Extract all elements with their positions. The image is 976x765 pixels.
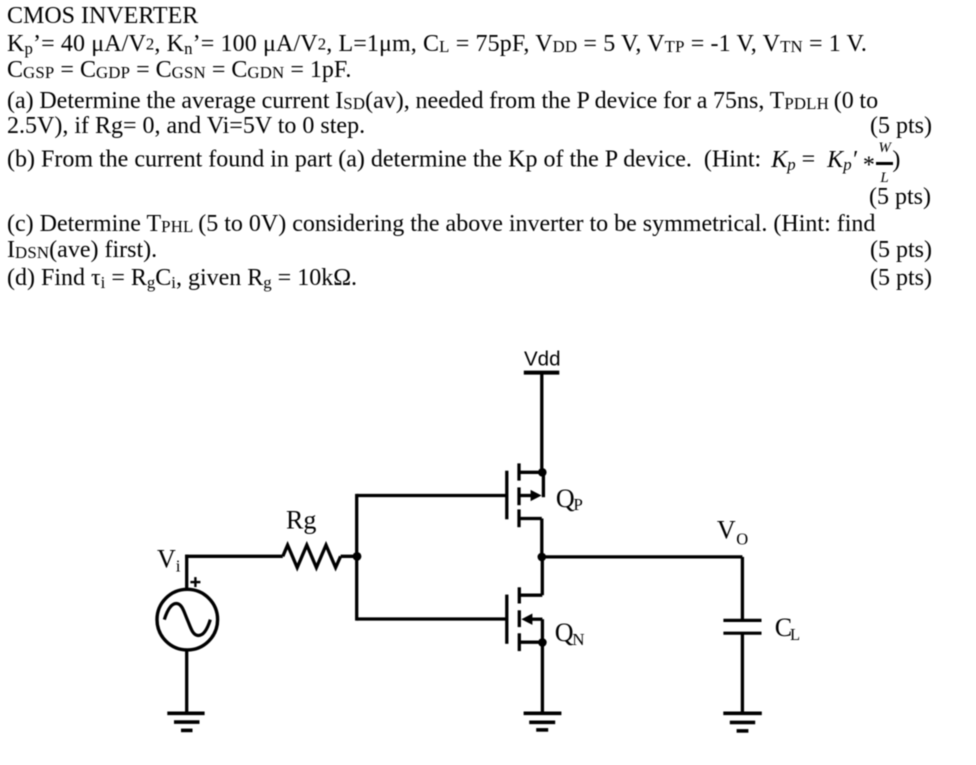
svg-text:i: i — [176, 556, 181, 575]
(5 pts) for part d — [870, 265, 932, 292]
part (d) line — [7, 265, 357, 297]
svg-text:Vdd: Vdd — [524, 348, 560, 371]
transistor Q_P body connection wire — [542, 472, 545, 497]
input node dot — [353, 552, 362, 561]
transistor Q_N body arrow — [521, 614, 532, 625]
part (a) line 2 — [7, 113, 365, 140]
ground right top line — [723, 711, 762, 715]
ground left top line — [167, 711, 204, 715]
svg-text:Rg: Rg — [286, 505, 316, 534]
ground center top line — [524, 711, 562, 715]
transistor Q_P gate bar — [505, 471, 508, 520]
ground right bottom line — [737, 729, 749, 733]
wire Vo to capacitor — [741, 557, 744, 621]
wire Q_P drain to output node — [540, 519, 543, 559]
transistor Q_P drain stub — [519, 517, 542, 520]
transistor Q_N channel segment top — [518, 587, 521, 603]
ground left middle line — [174, 720, 200, 724]
wire input node to Q_N gate — [357, 617, 507, 620]
transistor Q_N channel segment middle — [518, 610, 521, 627]
svg-text:P: P — [573, 495, 582, 514]
wire Vi riser — [185, 555, 188, 590]
part (c) line 1 — [7, 211, 875, 241]
wire resistor to input node — [341, 555, 357, 558]
svg-text:Q: Q — [556, 484, 575, 513]
wire input node vertical — [355, 494, 358, 621]
wire output node to Q_N drain — [541, 557, 544, 595]
wire Vdd to Qp source — [540, 373, 543, 473]
ground right middle line — [730, 721, 755, 725]
capacitor C_L top plate — [723, 619, 761, 622]
svg-text:N: N — [572, 630, 584, 649]
svg-text:Q: Q — [555, 618, 574, 647]
transistor Q_N gate bar — [505, 595, 508, 644]
output node dot — [538, 553, 547, 562]
node dot Q_N source/body junction — [538, 638, 547, 647]
wire Vi to resistor — [185, 555, 283, 558]
capacitances line — [7, 57, 351, 87]
wire Q_N source to ground — [541, 642, 544, 713]
wire input node to Q_P gate — [357, 494, 507, 497]
transistor Q_P channel segment top — [517, 463, 520, 480]
Vdd supply bar — [524, 371, 560, 375]
transistor Q_P body arrow — [531, 490, 542, 501]
wire output node to Vo / CL — [542, 555, 743, 558]
transistor Q_N drain stub — [519, 594, 542, 597]
(5 pts) for part a — [870, 113, 932, 140]
ground center middle line — [529, 720, 555, 724]
part (c) line 2 — [7, 237, 157, 267]
source V_i circle — [157, 589, 218, 650]
svg-text:O: O — [736, 529, 748, 548]
svg-text:V: V — [157, 544, 176, 573]
transistor Q_N body stub with arrow — [531, 618, 542, 621]
transistor Q_P channel segment middle — [517, 487, 520, 505]
transistor Q_N body connection wire — [541, 619, 544, 642]
part (b) line with formula — [7, 143, 900, 183]
wire capacitor to ground — [741, 633, 744, 713]
parameters line — [7, 31, 867, 63]
transistor Q_P source stub — [519, 471, 543, 474]
plus sign — [190, 581, 200, 583]
ground left bottom line — [181, 729, 193, 733]
svg-text:L: L — [790, 625, 800, 644]
title line — [7, 3, 198, 30]
transistor Q_N source stub — [519, 641, 542, 644]
capacitor C_L bottom plate — [723, 632, 761, 635]
node dot Qp source/body junction — [538, 468, 547, 477]
ground center bottom line — [536, 728, 548, 732]
source V_i sine wave — [164, 603, 210, 635]
transistor Q_N channel segment bottom — [518, 633, 521, 651]
resistor Rg zigzag — [283, 545, 341, 567]
transistor Q_P channel segment bottom — [517, 509, 520, 527]
svg-text:V: V — [717, 516, 736, 545]
wire source to ground — [185, 650, 188, 713]
part (a) line 1 — [7, 88, 878, 118]
(5 pts) for part b — [869, 184, 931, 211]
(5 pts) for part c — [870, 237, 932, 264]
transistor Q_P body stub with arrow — [519, 494, 532, 497]
